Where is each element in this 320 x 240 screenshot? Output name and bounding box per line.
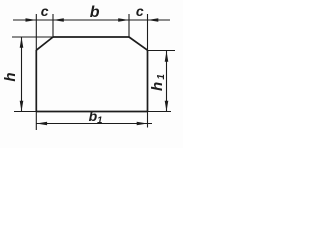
- svg-text:b: b: [90, 4, 100, 21]
- svg-text:c: c: [41, 3, 49, 19]
- svg-text:h: h: [2, 72, 19, 81]
- svg-text:c: c: [136, 3, 144, 19]
